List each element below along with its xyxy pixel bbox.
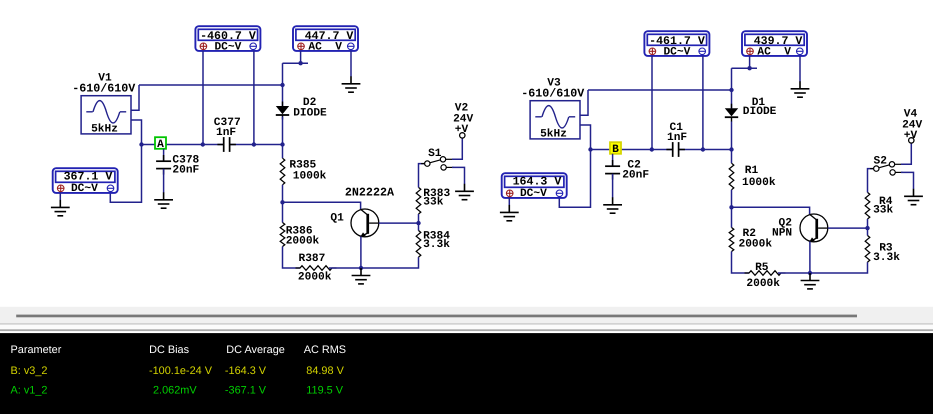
junction emitter/ground: [808, 271, 812, 275]
wire meter3 plus to ground: [508, 197, 510, 205]
svg-text:5kHz: 5kHz: [91, 122, 118, 135]
ground for meter2: [342, 76, 361, 92]
table header row: [11, 344, 347, 356]
svg-text:33k: 33k: [423, 195, 443, 208]
svg-text:-610/610V: -610/610V: [72, 82, 135, 96]
wire meter3 plus to ground: [59, 192, 61, 200]
svg-text:2000k: 2000k: [746, 277, 780, 290]
svg-text:2N2222A: 2N2222A: [345, 186, 395, 200]
junction collector: [865, 226, 869, 230]
junction at node A: [139, 142, 143, 146]
svg-text:1nF: 1nF: [667, 132, 687, 144]
junction C2/meter tap: [650, 147, 654, 151]
ground for meter3: [500, 205, 519, 221]
wire bottom rail: [778, 262, 868, 273]
svg-text:R5: R5: [755, 262, 769, 274]
wire switch top throw to +V: [452, 138, 462, 159]
svg-text:Parameter: Parameter: [11, 344, 62, 356]
junction collector: [416, 221, 420, 225]
wire collector to right column: [379, 222, 419, 224]
left circuit: [51, 26, 474, 284]
svg-text:S1: S1: [428, 148, 442, 160]
wire meter2 minus lead: [799, 56, 801, 82]
junction top rail / diode column: [729, 88, 733, 92]
wire top rail: [588, 89, 732, 91]
wire V1 top pin to top rail: [131, 85, 139, 110]
wire V3 top pin to top rail: [580, 90, 588, 115]
svg-text:+V: +V: [455, 124, 469, 136]
voltmeter XMM 447.7V AC V: [293, 26, 358, 51]
ground for C2: [603, 197, 622, 213]
svg-text:119.5 V: 119.5 V: [306, 385, 343, 397]
junction at diode column: [729, 147, 733, 151]
svg-text:5kHz: 5kHz: [540, 127, 567, 140]
ground for switch throw: [455, 184, 474, 200]
svg-text:DC Bias: DC Bias: [149, 344, 189, 356]
wire collector to right column: [828, 227, 868, 229]
svg-text:3.3k: 3.3k: [423, 238, 450, 251]
resistor R4 33k: [865, 192, 870, 219]
wire resistor to base junction: [731, 190, 733, 228]
junction base tap: [729, 205, 733, 209]
wire top rail: [139, 84, 283, 86]
svg-text:NPN: NPN: [772, 228, 792, 240]
svg-text:2000k: 2000k: [739, 237, 773, 250]
wire between resistors: [867, 219, 869, 236]
wire node line right of series cap: [230, 144, 283, 146]
junction at node B: [588, 147, 592, 151]
wire resistor to base junction: [282, 185, 284, 223]
wire meter1 minus lead: [253, 51, 255, 145]
svg-text:AC V: AC V: [757, 46, 791, 58]
junction meter2 plus: [298, 61, 302, 65]
svg-text:DIODE: DIODE: [293, 108, 327, 120]
wire bottom left corner: [283, 247, 301, 269]
svg-text:-164.3 V: -164.3 V: [225, 365, 267, 377]
ground for emitter: [352, 268, 371, 284]
junction base tap: [280, 200, 284, 204]
wire base to transistor Q1 2N2222A: [283, 202, 361, 209]
resistor R2 2000k: [729, 228, 734, 252]
svg-text:AC V: AC V: [308, 41, 342, 53]
capacitor C1 (series): [666, 142, 685, 157]
svg-text:-367.1 V: -367.1 V: [225, 385, 267, 397]
svg-text:R387: R387: [299, 253, 326, 265]
resistor R387 2000k (horizontal): [296, 266, 337, 271]
svg-text:33k: 33k: [873, 204, 893, 217]
grapher black panel: [0, 333, 933, 414]
svg-text:DIODE: DIODE: [743, 106, 777, 118]
table row B: v3_2: [11, 365, 345, 377]
voltmeter XMM -461.7V DC~V: [644, 31, 709, 56]
canvas bottom scrollbar strip: [0, 307, 933, 323]
svg-text:2000k: 2000k: [298, 271, 332, 284]
ground for switch throw: [904, 189, 923, 205]
svg-text:B: v3_2: B: v3_2: [11, 365, 48, 377]
table row A: v1_2: [11, 385, 344, 397]
right circuit: [500, 31, 923, 290]
node label B: [610, 142, 621, 154]
wire emitter down: [809, 242, 811, 274]
svg-text:R1: R1: [745, 165, 759, 177]
svg-text:-100.1e-24 V: -100.1e-24 V: [149, 365, 213, 377]
junction top rail / diode column: [280, 83, 284, 87]
voltmeter XMM 439.7V AC V: [742, 31, 807, 56]
wire meter2 plus lead: [300, 51, 302, 63]
capacitor C378 lead and symbol: [163, 149, 165, 161]
junction at diode column: [280, 142, 284, 146]
svg-text:Q1: Q1: [330, 213, 344, 225]
resistor R5 2000k (horizontal): [745, 271, 786, 276]
ground for emitter: [801, 273, 820, 289]
wire switch pole to resistor: [868, 169, 874, 193]
wire diode to resistor: [282, 117, 284, 159]
svg-text:S2: S2: [874, 156, 888, 168]
wire bottom left corner: [732, 252, 750, 274]
wire diode column top: [731, 68, 733, 111]
svg-text:2000k: 2000k: [286, 234, 320, 247]
AC source V1: [81, 96, 131, 134]
junction C378/meter tap: [201, 142, 205, 146]
diode D2: [276, 102, 289, 120]
wire meter2 minus lead: [350, 51, 352, 77]
resistor R3 3.3k: [865, 236, 870, 263]
svg-text:367.1 V: 367.1 V: [64, 170, 113, 183]
svg-text:+V: +V: [904, 130, 918, 142]
wire top stub: [283, 62, 309, 64]
svg-text:164.3 V: 164.3 V: [513, 175, 562, 188]
wire base to transistor Q2 NPN: [732, 207, 810, 214]
splitter line upper: [0, 323, 933, 325]
wire bottom rail: [329, 257, 419, 268]
power terminal V4 +V 24V: [909, 138, 914, 143]
resistor R386 2000k: [280, 223, 285, 247]
transistor Q1 2N2222A: [351, 209, 379, 237]
capacitor C377 (series): [217, 137, 236, 152]
resistor R384 3.3k: [416, 231, 421, 258]
svg-text:DC Average: DC Average: [226, 344, 285, 356]
wire meter1 minus lead: [702, 56, 704, 150]
horizontal scrollbar thumb: [16, 315, 857, 318]
wire switch bottom throw to ground: [452, 167, 465, 184]
junction meter minus tap: [252, 142, 256, 146]
ground for meter2: [791, 81, 810, 97]
switch S1 SPDT: [421, 157, 454, 171]
power terminal V2 +V 24V: [460, 133, 465, 138]
splitter line lower: [0, 329, 933, 331]
resistor R383 33k: [416, 187, 421, 214]
junction emitter/ground: [359, 266, 363, 270]
node label A: [155, 137, 166, 149]
transistor Q2 NPN: [800, 214, 828, 242]
wire meter2 plus lead: [749, 56, 751, 68]
wire node line right of series cap: [679, 149, 732, 151]
svg-text:DC~V: DC~V: [214, 41, 241, 53]
wire switch pole to resistor: [419, 164, 425, 188]
wire diode to resistor: [731, 122, 733, 164]
svg-text:DC~V: DC~V: [71, 183, 98, 195]
svg-text:DC~V: DC~V: [663, 46, 690, 58]
junction meter minus tap: [701, 147, 705, 151]
wire switch bottom throw to ground: [901, 172, 914, 189]
svg-text:20nF: 20nF: [622, 169, 649, 181]
svg-text:3.3k: 3.3k: [873, 251, 900, 264]
junction meter2 plus: [747, 66, 751, 70]
wire V3 bottom pin down to node B and meter: [559, 125, 590, 207]
wire V1 bottom pin down to node A and meter: [110, 120, 141, 202]
diode D1: [725, 104, 738, 122]
svg-text:A: v1_2: A: v1_2: [11, 385, 48, 397]
AC source V3: [530, 101, 580, 139]
svg-text:1nF: 1nF: [216, 127, 236, 139]
capacitor C2 lead and symbol: [612, 154, 614, 166]
wire switch top throw to +V: [901, 143, 911, 164]
svg-text:84.98 V: 84.98 V: [306, 365, 344, 377]
resistor R385 1000k: [280, 158, 285, 185]
voltmeter XMM -460.7V DC~V: [195, 26, 260, 51]
svg-text:DC~V: DC~V: [520, 188, 547, 200]
wire top stub: [732, 67, 758, 69]
ground for C378: [154, 192, 173, 208]
wire emitter down: [360, 237, 362, 269]
wire meter1 plus lead: [651, 56, 653, 150]
wire meter1 plus lead: [202, 51, 204, 145]
ground for meter3: [51, 200, 70, 216]
voltmeter XMM 164.3V DC~V: [502, 173, 567, 198]
voltmeter XMM 367.1V DC~V: [53, 168, 118, 193]
svg-text:20nF: 20nF: [172, 164, 199, 176]
wire node A line (left part): [142, 144, 224, 146]
svg-text:-610/610V: -610/610V: [521, 87, 584, 101]
svg-text:2.062mV: 2.062mV: [153, 385, 197, 397]
svg-text:AC RMS: AC RMS: [304, 344, 346, 356]
svg-text:1000k: 1000k: [742, 176, 776, 189]
switch S2 SPDT: [870, 162, 903, 176]
wire node B line (left part): [591, 149, 673, 151]
svg-text:1000k: 1000k: [293, 169, 327, 182]
resistor R1 1000k: [729, 163, 734, 190]
wire diode column top: [282, 63, 284, 106]
wire between resistors: [418, 214, 420, 231]
